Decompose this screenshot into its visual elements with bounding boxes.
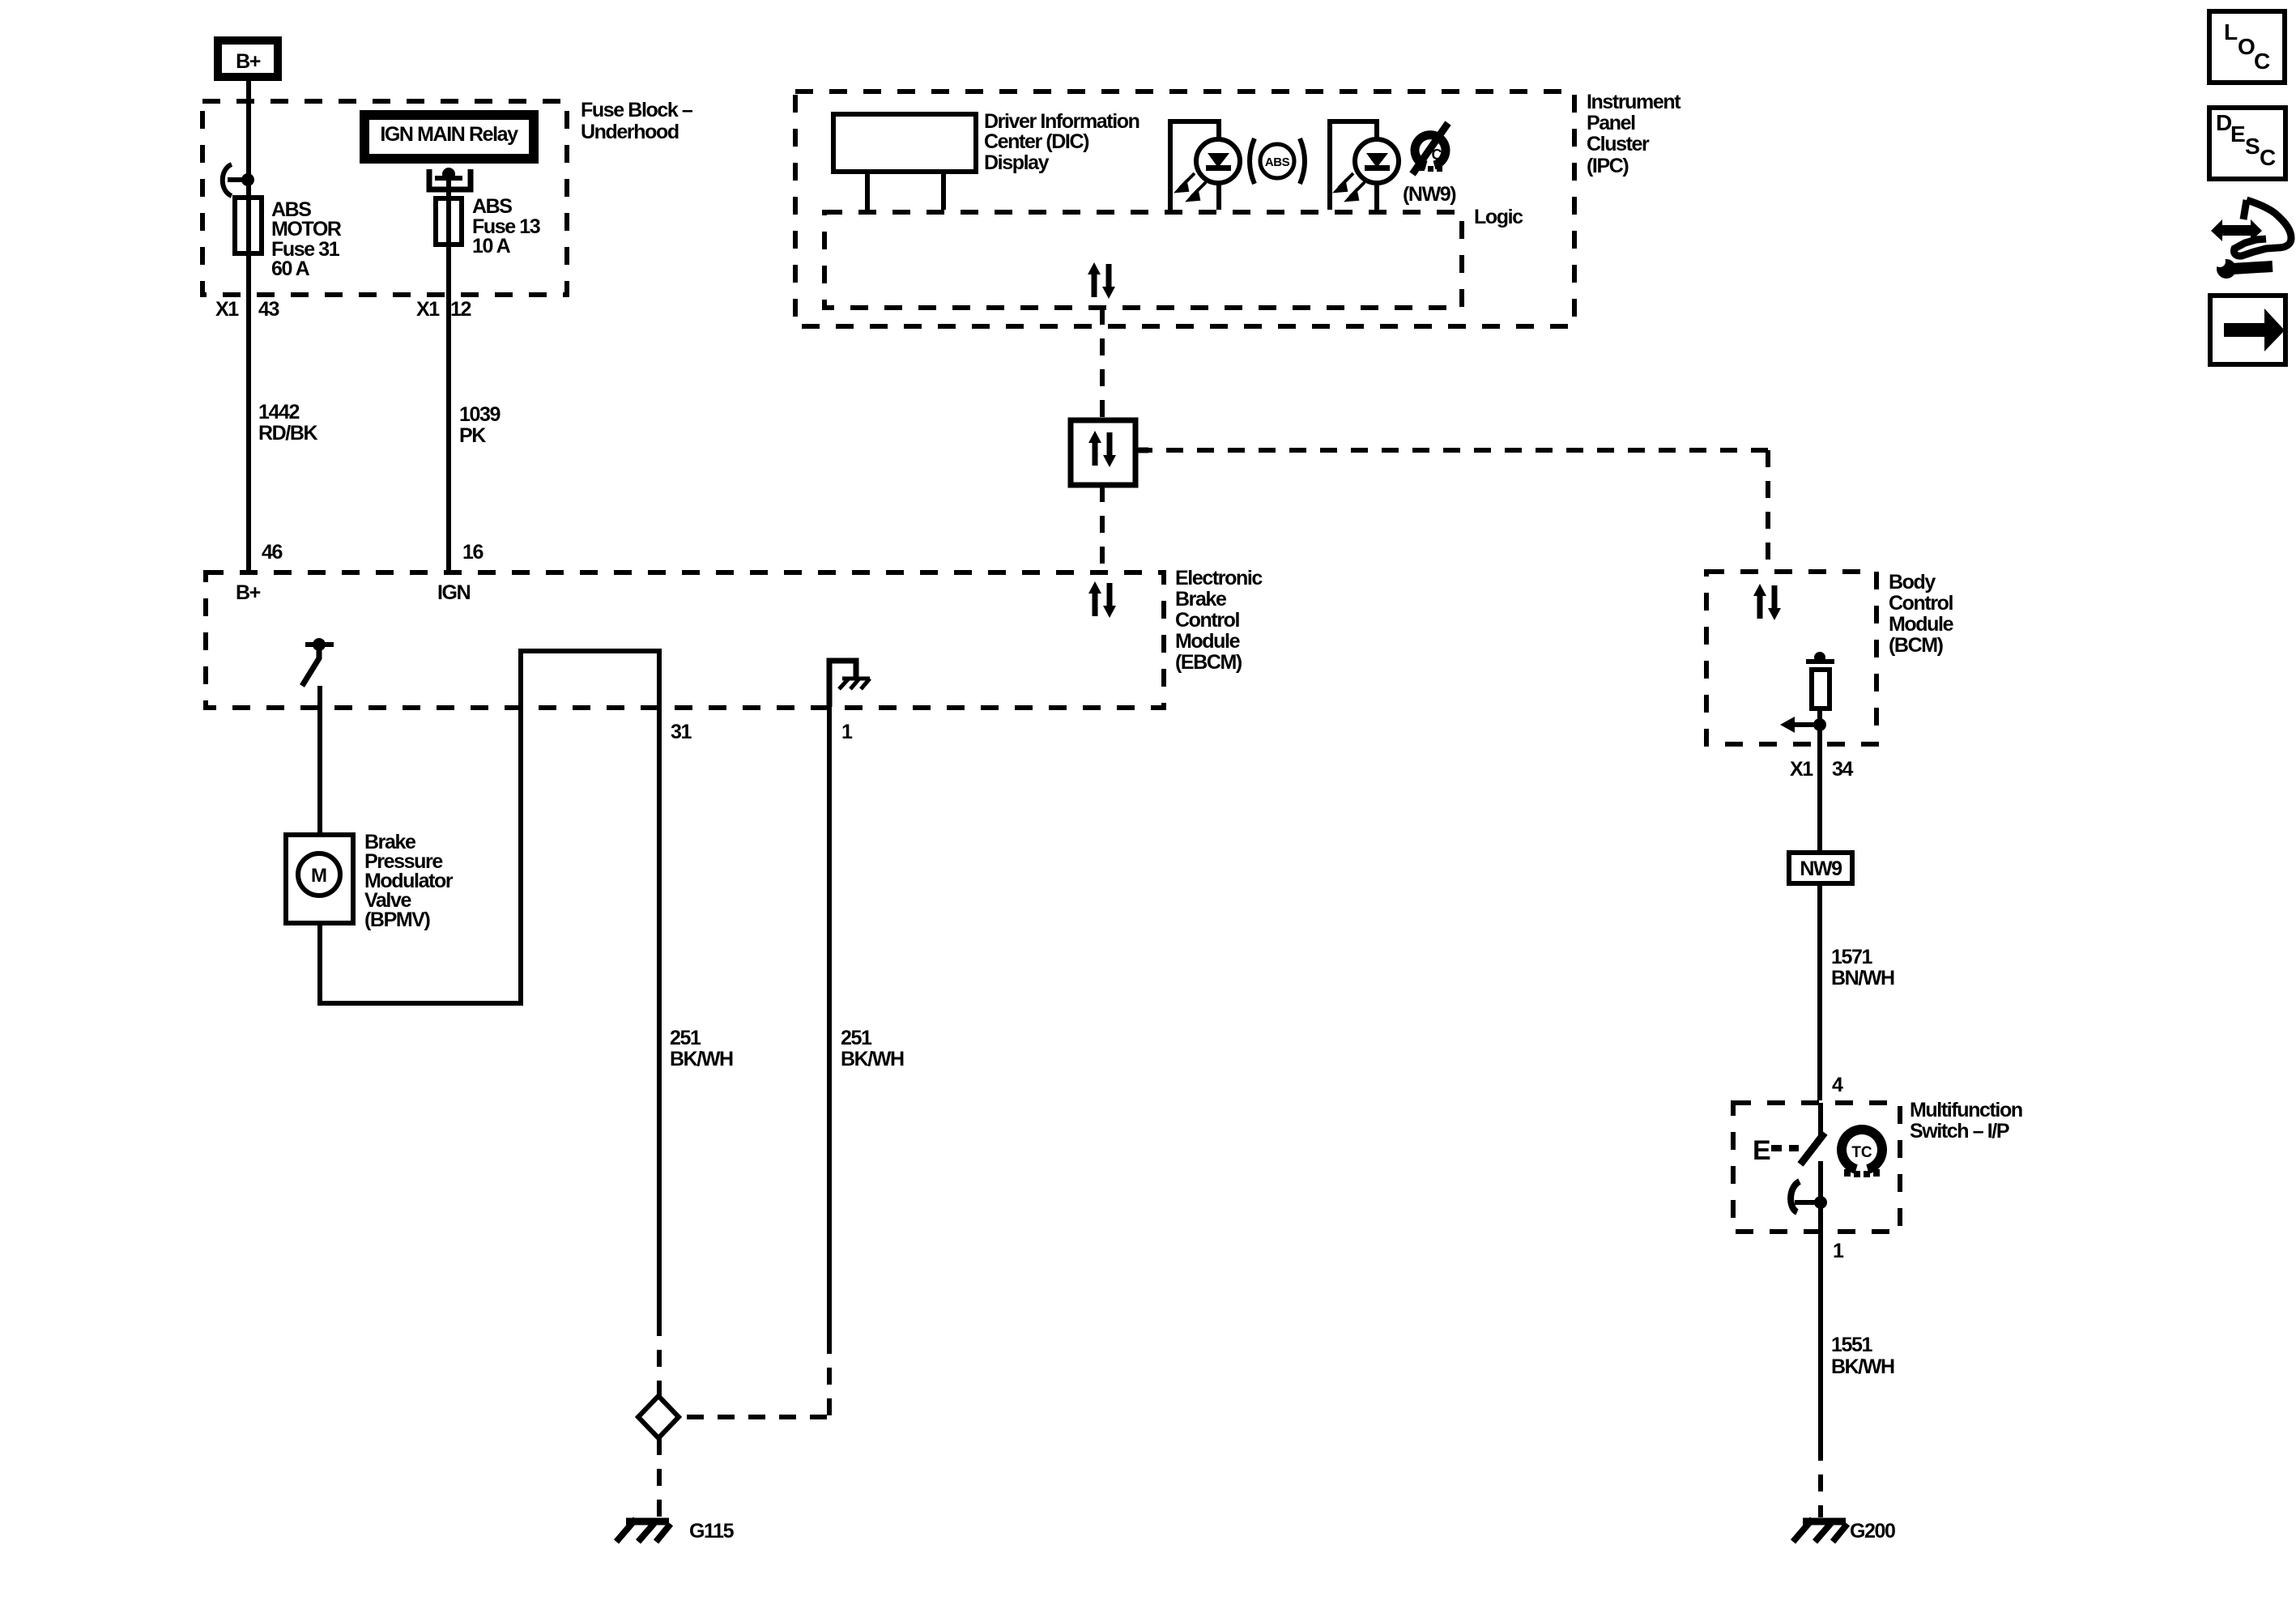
svg-text:(EBCM): (EBCM) bbox=[1175, 651, 1242, 674]
svg-text:4: 4 bbox=[1832, 1074, 1843, 1096]
svg-text:Electronic: Electronic bbox=[1175, 567, 1263, 589]
svg-text:M: M bbox=[311, 865, 327, 887]
svg-text:1551: 1551 bbox=[1831, 1334, 1873, 1356]
svg-text:B+: B+ bbox=[236, 581, 261, 604]
svg-text:BK/WH: BK/WH bbox=[670, 1048, 733, 1070]
svg-text:Panel: Panel bbox=[1587, 112, 1635, 134]
svg-text:BK/WH: BK/WH bbox=[1831, 1355, 1894, 1378]
svg-text:Center (DIC): Center (DIC) bbox=[984, 130, 1089, 153]
svg-text:1442: 1442 bbox=[258, 401, 300, 423]
svg-text:46: 46 bbox=[262, 541, 283, 564]
svg-text:L: L bbox=[2224, 19, 2238, 45]
svg-text:Switch – I/P: Switch – I/P bbox=[1910, 1120, 2009, 1143]
svg-text:31: 31 bbox=[671, 721, 692, 743]
svg-text:RD/BK: RD/BK bbox=[258, 422, 318, 445]
svg-text:Display: Display bbox=[984, 151, 1050, 174]
svg-text:ABS: ABS bbox=[1265, 155, 1290, 169]
svg-text:(NW9): (NW9) bbox=[1403, 183, 1456, 206]
svg-text:BN/WH: BN/WH bbox=[1831, 967, 1894, 989]
svg-text:X1: X1 bbox=[215, 298, 239, 321]
svg-text:BK/WH: BK/WH bbox=[841, 1048, 904, 1070]
svg-text:X1: X1 bbox=[1790, 758, 1813, 781]
svg-text:X1: X1 bbox=[416, 298, 440, 321]
svg-text:Logic: Logic bbox=[1474, 206, 1523, 228]
svg-text:251: 251 bbox=[841, 1027, 872, 1049]
svg-text:Control: Control bbox=[1175, 609, 1240, 632]
svg-text:(BPMV): (BPMV) bbox=[364, 908, 431, 931]
svg-text:Body: Body bbox=[1889, 571, 1936, 594]
svg-text:G200: G200 bbox=[1850, 1520, 1895, 1543]
svg-text:Module: Module bbox=[1175, 630, 1241, 653]
svg-text:1: 1 bbox=[841, 721, 853, 743]
svg-text:60 A: 60 A bbox=[271, 257, 310, 280]
svg-text:E: E bbox=[1753, 1135, 1771, 1166]
svg-text:(IPC): (IPC) bbox=[1587, 155, 1629, 177]
svg-text:NW9: NW9 bbox=[1800, 857, 1842, 880]
svg-text:O: O bbox=[2238, 34, 2256, 59]
svg-text:Multifunction: Multifunction bbox=[1910, 1099, 2022, 1121]
svg-text:1571: 1571 bbox=[1831, 946, 1873, 968]
svg-text:251: 251 bbox=[670, 1027, 701, 1049]
svg-text:Driver Information: Driver Information bbox=[984, 110, 1139, 133]
svg-text:S: S bbox=[2245, 134, 2260, 159]
svg-text:10 A: 10 A bbox=[472, 235, 511, 257]
svg-text:1039: 1039 bbox=[459, 403, 501, 426]
svg-text:C: C bbox=[2254, 49, 2270, 74]
svg-text:PK: PK bbox=[459, 424, 486, 447]
svg-text:B+: B+ bbox=[236, 50, 261, 73]
svg-text:Module: Module bbox=[1889, 613, 1954, 636]
svg-text:G115: G115 bbox=[689, 1520, 735, 1543]
svg-text:ABS: ABS bbox=[472, 195, 512, 218]
svg-text:43: 43 bbox=[258, 298, 279, 321]
svg-text:12: 12 bbox=[450, 298, 471, 321]
svg-text:IGN MAIN Relay: IGN MAIN Relay bbox=[380, 123, 518, 146]
svg-text:TC: TC bbox=[1851, 1144, 1872, 1161]
svg-text:Cluster: Cluster bbox=[1587, 133, 1650, 155]
svg-text:Instrument: Instrument bbox=[1587, 91, 1681, 113]
svg-text:Control: Control bbox=[1889, 592, 1953, 615]
svg-text:E: E bbox=[2230, 121, 2246, 147]
svg-text:IGN: IGN bbox=[437, 581, 471, 604]
svg-text:MOTOR: MOTOR bbox=[271, 218, 342, 240]
svg-text:34: 34 bbox=[1832, 758, 1854, 781]
svg-text:Underhood: Underhood bbox=[581, 121, 679, 143]
svg-text:(BCM): (BCM) bbox=[1889, 634, 1944, 657]
svg-text:16: 16 bbox=[462, 541, 483, 564]
svg-text:C: C bbox=[2260, 145, 2276, 170]
svg-text:Brake: Brake bbox=[1175, 588, 1227, 611]
svg-text:Fuse Block –: Fuse Block – bbox=[581, 99, 693, 121]
svg-text:1: 1 bbox=[1833, 1240, 1844, 1262]
